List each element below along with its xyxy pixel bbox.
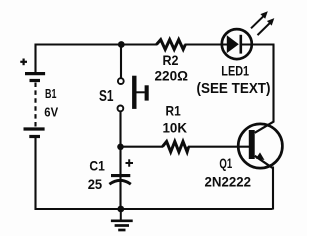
svg-text:B1: B1: [45, 86, 57, 101]
svg-text:25: 25: [88, 176, 103, 192]
svg-text:R1: R1: [166, 103, 181, 119]
svg-text:Q1: Q1: [219, 155, 232, 171]
svg-text:220Ω: 220Ω: [155, 68, 189, 84]
svg-text:S1: S1: [99, 88, 114, 105]
svg-text:C1: C1: [89, 157, 105, 173]
svg-text:10K: 10K: [163, 120, 188, 136]
svg-text:(SEE TEXT): (SEE TEXT): [197, 80, 271, 97]
svg-text:2N2222: 2N2222: [205, 174, 252, 190]
svg-text:R2: R2: [163, 52, 179, 68]
svg-text:6V: 6V: [44, 104, 58, 119]
svg-text:LED1: LED1: [221, 63, 249, 79]
